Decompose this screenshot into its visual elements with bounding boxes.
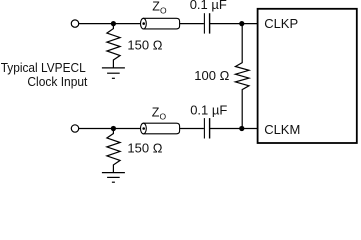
svg-text:0.1 µF: 0.1 µF [190, 0, 227, 12]
resistor 150 ohm (bottom) [107, 129, 120, 173]
svg-text:150 Ω: 150 Ω [127, 141, 162, 156]
wire: input terminal to transmission line [79, 23, 141, 25]
ground (bottom) [102, 172, 125, 174]
wire: transmission line to capacitor (top) [180, 23, 204, 25]
IC box U1 (CLKP/CLKM receiver) [258, 9, 357, 143]
svg-text:0.1 µF: 0.1 µF [190, 103, 227, 118]
wire: transmission line to capacitor (bottom) [180, 128, 204, 130]
svg-text:CLKP: CLKP [264, 16, 298, 31]
ground (top) [102, 67, 125, 69]
wire: input terminal to transmission line (bottom) [79, 128, 141, 130]
svg-text:100 Ω: 100 Ω [194, 68, 229, 83]
svg-text:Typical LVPECL: Typical LVPECL [1, 60, 86, 75]
node junction top-right [239, 21, 244, 26]
input terminal (open circle) bottom [71, 125, 78, 132]
node junction bottom-right [239, 126, 244, 131]
resistor 150 ohm (top) [107, 24, 120, 68]
node junction top-left [111, 21, 116, 26]
transmission line ZO (top) [141, 18, 180, 29]
resistor 100 ohm (vertical) [235, 24, 249, 129]
input terminal (open circle) top [71, 20, 78, 27]
capacitor 0.1 uF (bottom) [203, 118, 205, 138]
svg-text:Clock Input: Clock Input [27, 74, 87, 89]
svg-text:CLKM: CLKM [264, 122, 300, 137]
capacitor 0.1 uF (top) [203, 13, 205, 33]
transmission line ZO (bottom) [141, 123, 180, 134]
wire: capacitor to CLKM pin [210, 128, 258, 130]
node junction bottom-left [111, 126, 116, 131]
svg-text:150 Ω: 150 Ω [127, 38, 162, 53]
wire: capacitor to CLKP pin [210, 23, 258, 25]
